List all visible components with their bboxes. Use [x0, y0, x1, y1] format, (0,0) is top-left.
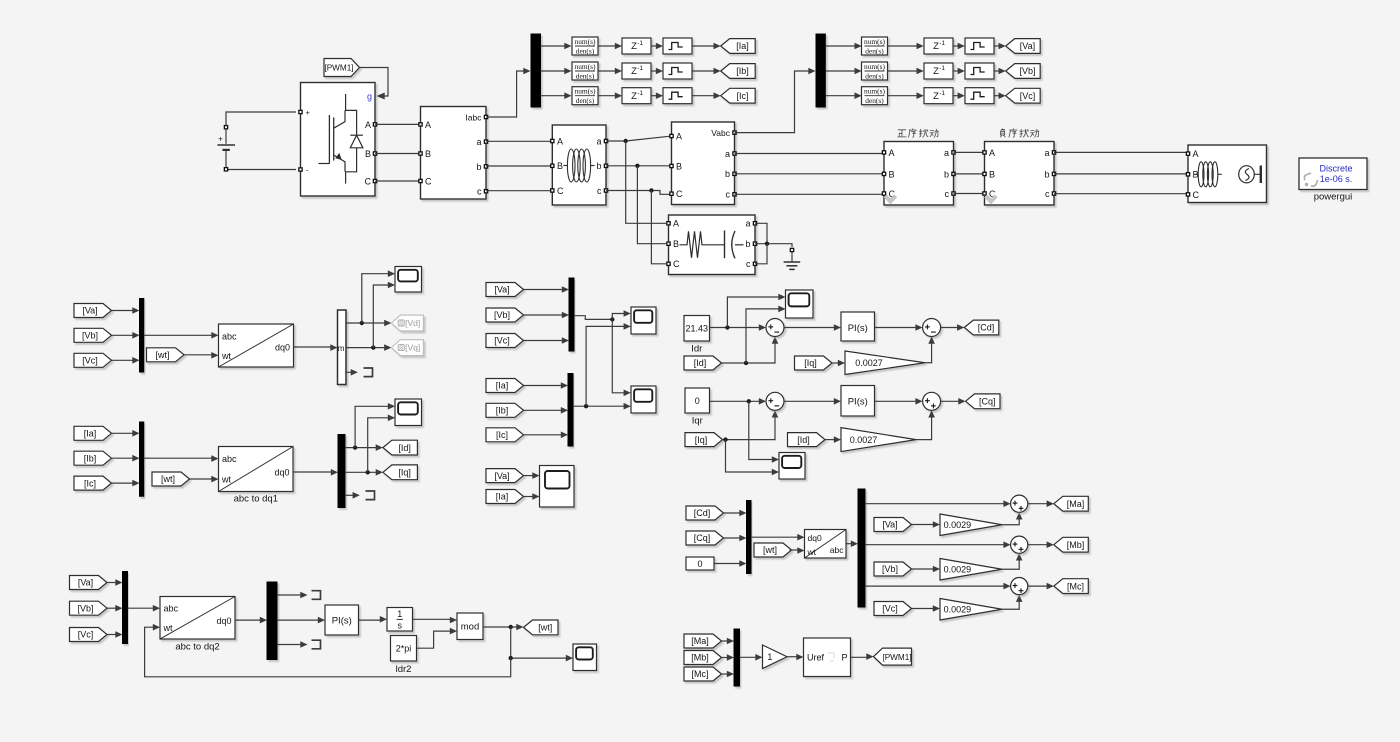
terminator E2 — [312, 640, 321, 649]
label Iqr — [692, 416, 703, 427]
wire b to posseq — [735, 173, 885, 175]
demux currents — [531, 34, 541, 107]
from tag [Ia] D2 — [486, 490, 524, 504]
svg-text:[wt]: [wt] — [161, 474, 175, 484]
wire Va scope3 — [524, 472, 540, 479]
svg-text:+: + — [218, 135, 223, 144]
svg-text:0.0029: 0.0029 — [944, 520, 972, 530]
svg-text:[Ia]: [Ia] — [84, 429, 97, 439]
goto tag [Vb] — [1006, 64, 1040, 79]
svg-text:[Ib]: [Ib] — [496, 406, 509, 416]
series RL branch — [550, 125, 608, 205]
svg-text:B: B — [365, 149, 371, 159]
mux currents C — [140, 422, 144, 496]
from tag [Vc] E — [70, 628, 108, 642]
from tag [Va] D — [486, 283, 524, 297]
wire Iabc to demux — [486, 68, 531, 117]
from tag [Ic] D — [486, 428, 524, 442]
wire delay to hold Vb — [953, 68, 965, 75]
source coil icon — [1194, 162, 1222, 187]
zero-order hold Va — [965, 38, 994, 54]
unit delay Ib — [622, 63, 651, 79]
mux H — [734, 629, 740, 686]
wire Id to scope — [355, 403, 395, 448]
goto tag [Mb] — [1054, 537, 1089, 552]
wire Id to gain q — [825, 436, 842, 443]
from tag [Ib] D — [486, 403, 524, 417]
svg-text:A: A — [425, 120, 431, 130]
sum junction c — [1011, 578, 1028, 595]
wire neg b — [1054, 173, 1188, 175]
svg-text:dq0: dq0 — [808, 533, 822, 543]
negative-sequence disturbance subsystem — [982, 129, 1056, 205]
svg-text:[Va]: [Va] — [82, 306, 97, 316]
svg-text:[Id]: [Id] — [694, 358, 707, 368]
gain 0.0029 b — [940, 559, 1002, 581]
svg-text:c: c — [477, 187, 482, 197]
svg-text:num(s): num(s) — [864, 62, 885, 71]
svg-text:C: C — [676, 189, 683, 199]
wire c with tap — [606, 188, 672, 263]
measurement block Iabc — [418, 107, 488, 200]
PI controller PLL — [325, 605, 359, 635]
svg-text:c: c — [1045, 189, 1050, 199]
sum junction b — [1011, 536, 1028, 553]
svg-text:abc: abc — [222, 454, 237, 464]
svg-text:num(s): num(s) — [575, 37, 596, 46]
svg-text:dq0: dq0 — [216, 616, 231, 626]
svg-text:[Va]: [Va] — [1020, 41, 1035, 51]
from tag [wt] B — [147, 348, 185, 362]
wire Va E — [107, 579, 123, 586]
svg-text:[Id]: [Id] — [398, 443, 411, 453]
wire mux to dq0 G — [751, 534, 805, 541]
mux voltages B — [140, 299, 144, 373]
from tag [Ia] D — [486, 379, 524, 393]
svg-text:0.0027: 0.0027 — [855, 358, 883, 368]
wire demux to TF Vb — [825, 68, 861, 75]
from tag [Vb] D — [486, 308, 524, 322]
wire pos b — [954, 173, 985, 175]
mux PLL — [123, 572, 128, 644]
svg-text:PI(s): PI(s) — [848, 323, 868, 334]
mux G — [747, 501, 752, 574]
svg-text:Z: Z — [933, 91, 939, 102]
svg-text:-1: -1 — [939, 40, 945, 47]
wire PWM1 to g — [360, 68, 389, 100]
wire neg a — [1054, 151, 1188, 153]
wire Ic D — [524, 432, 569, 439]
wire load c — [755, 244, 767, 264]
wire delay to hold Va — [953, 43, 965, 50]
svg-text:B: B — [425, 149, 431, 159]
wire Id — [345, 444, 383, 451]
constant 2*pi — [391, 636, 417, 662]
svg-text:a: a — [944, 148, 949, 158]
wire Ia D — [524, 382, 569, 389]
wire TF to delay Ic — [598, 92, 622, 99]
from tag [Vc] D — [486, 334, 524, 348]
svg-text:[Ic]: [Ic] — [736, 91, 748, 101]
wire mux to gain H — [740, 654, 763, 661]
wire demux row c — [865, 583, 1011, 590]
wire demux row b — [865, 541, 1011, 548]
svg-text:dq0: dq0 — [274, 467, 289, 477]
svg-text:dq0: dq0 — [275, 343, 290, 353]
zero-order hold Ia — [663, 38, 692, 54]
wire demux to TF Va — [825, 43, 861, 50]
svg-text:b: b — [725, 169, 730, 179]
svg-text:1: 1 — [767, 652, 772, 662]
label Idr — [691, 344, 702, 355]
wire 0 G — [714, 560, 747, 567]
wire demux to TF Ic — [541, 92, 572, 99]
svg-text:1: 1 — [397, 609, 402, 619]
wire mod out — [483, 624, 524, 631]
gain 0.0029 c — [940, 599, 1002, 621]
demux PLL — [267, 582, 277, 660]
svg-text:A: A — [365, 120, 371, 130]
wire sum to Ma — [1028, 500, 1054, 507]
svg-text:2*pi: 2*pi — [396, 644, 412, 654]
scope PLL — [573, 644, 597, 671]
three-phase source block — [1186, 145, 1267, 203]
gain 0.0029 a — [940, 514, 1002, 536]
wire TF to delay Ib — [598, 68, 622, 75]
wire meas b — [486, 165, 552, 167]
wire delay to hold Vc — [953, 92, 965, 99]
goto tag [Vc] — [1006, 88, 1040, 103]
wire Iqr to sum — [710, 398, 767, 405]
from tag [Vb] B — [74, 328, 112, 342]
svg-text:C: C — [365, 176, 372, 186]
wire Cd G — [724, 510, 747, 517]
wire hold to goto Va — [994, 43, 1006, 50]
svg-text:-1: -1 — [939, 90, 945, 97]
svg-text:[Iq]: [Iq] — [695, 435, 708, 445]
grayed goto [Vd] — [391, 315, 423, 331]
wire bridge B — [375, 153, 421, 155]
from tag [Id] F — [684, 356, 722, 370]
from tag [Id] F2 — [788, 433, 826, 447]
svg-text:wt: wt — [807, 547, 817, 557]
wire gain to PWM — [787, 654, 804, 661]
from tag [Iq] F2 — [685, 433, 723, 447]
wire Iq to scope — [368, 415, 395, 473]
wire sum to PI d — [784, 324, 841, 331]
from tag [Vb] G — [874, 562, 912, 576]
PI controller d — [841, 312, 875, 341]
wire Ib D — [524, 407, 569, 414]
svg-text:den(s): den(s) — [865, 46, 884, 55]
from tag [wt] G — [754, 543, 792, 557]
svg-text:B: B — [676, 161, 682, 171]
svg-text:Z: Z — [631, 41, 637, 52]
svg-text:[PWM1]: [PWM1] — [324, 64, 353, 73]
svg-text:[Vd]: [Vd] — [405, 318, 420, 328]
from tag [Iq] F — [795, 356, 833, 370]
zero-order hold Vc — [965, 88, 994, 104]
RC icon — [680, 230, 744, 258]
constant 0 G — [686, 557, 714, 570]
wire hold to goto Vc — [994, 92, 1006, 99]
transfer fcn Vb — [862, 62, 888, 80]
svg-text:ldr2: ldr2 — [396, 664, 412, 675]
wire Vq — [346, 344, 391, 351]
svg-text:[Vq]: [Vq] — [405, 343, 420, 353]
svg-text:[Mc]: [Mc] — [692, 669, 709, 679]
svg-text:den(s): den(s) — [576, 96, 595, 105]
unit delay Vc — [924, 88, 953, 104]
wire Idr to scope — [727, 294, 785, 328]
wire term E1 — [277, 592, 308, 599]
svg-text:[Ib]: [Ib] — [84, 453, 97, 463]
wire load b — [755, 242, 790, 246]
svg-text:[Mc]: [Mc] — [1067, 581, 1084, 591]
from tag [wt] C — [152, 472, 190, 486]
svg-text:B: B — [557, 161, 563, 171]
sum junction a — [1011, 495, 1028, 512]
wire PI to integrator — [359, 616, 388, 623]
AC source icon — [1239, 166, 1261, 184]
demux G — [858, 489, 865, 607]
wire Vc D — [524, 337, 570, 344]
wire sum to Cq — [941, 398, 966, 405]
wire b with tap — [606, 164, 672, 244]
svg-text:B: B — [673, 239, 679, 249]
wire to PLL scope — [509, 627, 574, 661]
svg-text:wt: wt — [221, 475, 231, 485]
svg-text:[Ib]: [Ib] — [736, 66, 749, 76]
svg-text:[Ia]: [Ia] — [496, 381, 509, 391]
wire Va to mux B — [112, 307, 140, 314]
svg-text:c: c — [597, 186, 602, 196]
zero-order hold Ib — [663, 63, 692, 79]
svg-text:[Mb]: [Mb] — [1067, 540, 1085, 550]
svg-text:powergui: powergui — [1314, 192, 1353, 203]
wire hold to goto Ib — [692, 68, 721, 75]
wire demux to TF Ib — [541, 68, 572, 75]
svg-text:abc to dq1: abc to dq1 — [234, 494, 278, 505]
ground G1 — [784, 244, 801, 270]
svg-text:C: C — [425, 176, 432, 186]
wire Vb to gain — [912, 566, 941, 573]
from tag [Ma] H — [684, 634, 722, 648]
svg-text:b: b — [476, 162, 481, 172]
wire Mc H — [722, 671, 735, 678]
svg-text:[Ma]: [Ma] — [1067, 499, 1085, 509]
wire Vb to mux B — [112, 332, 140, 339]
svg-text:[Ia]: [Ia] — [496, 492, 509, 502]
svg-text:b: b — [596, 161, 601, 171]
svg-text:[wt]: [wt] — [763, 545, 777, 555]
svg-text:abc: abc — [830, 545, 844, 555]
svg-text:num(s): num(s) — [575, 87, 596, 96]
svg-text:a: a — [1044, 148, 1049, 158]
wire Ib to mux C — [112, 455, 140, 462]
svg-text:PI(s): PI(s) — [332, 615, 352, 626]
zero-order hold Vb — [965, 63, 994, 79]
svg-text:m: m — [338, 344, 345, 353]
from tag [Vb] E — [70, 601, 108, 615]
V-I measurement block — [669, 122, 737, 205]
svg-text:PI(s): PI(s) — [848, 397, 868, 408]
positive-sequence disturbance subsystem — [882, 129, 956, 205]
unit delay Ic — [622, 88, 651, 104]
wire I to scopes — [573, 323, 631, 409]
wire bridge A — [375, 123, 421, 125]
grayed goto [Vq] — [391, 340, 423, 356]
wire Vc to gain — [912, 605, 941, 612]
svg-text:Discrete: Discrete — [1319, 164, 1352, 174]
wire abc to demux G — [846, 540, 858, 547]
transfer fcn Ic — [572, 87, 598, 105]
wire Vabc to demux — [735, 68, 816, 133]
wire Vd — [346, 320, 391, 327]
svg-text:-1: -1 — [637, 90, 643, 97]
svg-text:mod: mod — [461, 622, 479, 633]
wire mux to abc E — [128, 605, 161, 612]
wire TF to delay Va — [887, 43, 924, 50]
wire Vb D — [524, 312, 570, 319]
from tag [Ib] C — [74, 451, 112, 465]
svg-text:[Ia]: [Ia] — [736, 41, 749, 51]
transfer fcn Va — [862, 37, 888, 55]
svg-text:den(s): den(s) — [865, 71, 884, 80]
svg-text:0.0029: 0.0029 — [944, 604, 972, 614]
wire V to scopes — [574, 310, 631, 396]
svg-text:A: A — [989, 148, 995, 158]
svg-text:s: s — [398, 621, 403, 631]
sum junction q1 — [766, 392, 784, 410]
svg-text:0.0029: 0.0029 — [944, 564, 972, 574]
label ldr2 — [396, 664, 412, 675]
wire gain to sum b — [1002, 553, 1023, 569]
svg-text:[Ic]: [Ic] — [496, 430, 508, 440]
goto tag [Ic] — [721, 88, 756, 103]
wire mux to abc C — [144, 455, 219, 462]
powergui label — [1314, 192, 1353, 203]
wire PWM out — [851, 653, 874, 660]
svg-text:wt: wt — [163, 623, 173, 633]
svg-text:c: c — [746, 259, 751, 269]
svg-text:[Cd]: [Cd] — [694, 508, 711, 518]
sum junction d1 — [766, 319, 784, 337]
wire gain to sum c — [1002, 595, 1023, 610]
dq0 to abc block — [805, 530, 847, 559]
wire demux to TF Ia — [541, 43, 572, 50]
svg-text:abc: abc — [222, 331, 237, 341]
svg-text:[Mb]: [Mb] — [691, 653, 709, 663]
wire integrator to mod — [413, 617, 458, 624]
demux B (hollow) — [338, 310, 347, 385]
svg-text:[Iq]: [Iq] — [804, 358, 817, 368]
wire Iq to scope q — [726, 440, 780, 476]
svg-text:0: 0 — [697, 559, 702, 569]
svg-text:[Vc]: [Vc] — [494, 336, 510, 346]
svg-text:b: b — [1044, 169, 1049, 179]
wire gain to sum d — [925, 337, 935, 363]
svg-text:[Va]: [Va] — [78, 578, 93, 588]
svg-text:a: a — [725, 149, 730, 159]
integrator 1/s — [387, 608, 413, 632]
svg-text:Z: Z — [933, 41, 939, 52]
from tag [Va] B — [74, 304, 112, 318]
wire PI to sum q — [875, 398, 923, 405]
label abc to dq2 — [175, 642, 219, 653]
svg-text:Idr: Idr — [691, 344, 702, 355]
svg-text:-1: -1 — [939, 65, 945, 72]
unit delay Vb — [924, 63, 953, 79]
wire a to posseq — [735, 153, 885, 155]
svg-text:[Vb]: [Vb] — [77, 603, 93, 613]
wire c to posseq — [735, 193, 885, 195]
svg-text:abc: abc — [164, 604, 179, 614]
svg-text:[Vb]: [Vb] — [1019, 66, 1035, 76]
wire Id to sum — [722, 337, 779, 366]
wire sum to PI q — [784, 398, 841, 405]
goto tag [Cd] — [964, 320, 999, 335]
wire neg c — [1054, 193, 1188, 195]
svg-text:[Va]: [Va] — [494, 471, 509, 481]
label abc to dq1 — [234, 494, 278, 505]
scope VaIa — [540, 466, 575, 508]
svg-text:0: 0 — [695, 396, 700, 406]
wire Ma H — [722, 638, 735, 645]
abc to dq2 block — [160, 597, 235, 640]
svg-text:-1: -1 — [637, 65, 643, 72]
goto tag [PWM1] — [874, 648, 912, 665]
wire hold to goto Vb — [994, 68, 1006, 75]
goto tag [Iq] — [383, 465, 418, 480]
svg-text:[Vc]: [Vc] — [78, 630, 94, 640]
svg-text:[Vb]: [Vb] — [494, 310, 510, 320]
wire dq0 to demux B — [294, 344, 338, 351]
svg-text:C: C — [673, 259, 680, 269]
wire delay to hold Ia — [651, 43, 663, 50]
wire Vc E — [107, 631, 123, 638]
wire Va to gain — [912, 521, 941, 528]
wire hold to goto Ic — [692, 92, 721, 99]
scope d-axis — [786, 290, 814, 318]
svg-text:a: a — [596, 136, 601, 146]
wire Idr to sum — [710, 324, 767, 331]
zero-order hold Ic — [663, 88, 692, 104]
svg-text:+: + — [306, 108, 311, 117]
svg-text:num(s): num(s) — [864, 37, 885, 46]
PWM generator block — [804, 638, 851, 677]
wire hold to goto Ia — [692, 43, 721, 50]
wire Iq — [345, 469, 383, 476]
wire meas a — [486, 140, 552, 142]
goto tag [Ma] — [1054, 496, 1089, 511]
wire wt C — [190, 476, 219, 483]
abc to dq0 block B — [219, 324, 294, 367]
wire Ia scope3 — [524, 493, 540, 500]
wire sum to Mc — [1028, 583, 1054, 590]
svg-text:den(s): den(s) — [576, 46, 595, 55]
svg-text:den(s): den(s) — [865, 96, 884, 105]
svg-text:Vabc: Vabc — [711, 128, 730, 138]
constant Idr 21.43 — [684, 316, 710, 342]
svg-text:[wt]: [wt] — [538, 623, 552, 633]
wire Vq to scope — [373, 282, 395, 348]
from tag [Vc] B — [74, 353, 112, 367]
scope q-axis — [779, 453, 805, 480]
svg-text:c: c — [945, 189, 950, 199]
from tag [PWM1] — [324, 59, 360, 77]
from tag [Mb] H — [684, 651, 722, 665]
